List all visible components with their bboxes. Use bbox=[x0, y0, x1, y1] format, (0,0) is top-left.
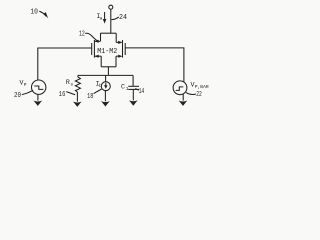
leader for 20 bbox=[22, 90, 33, 94]
svg-text:18: 18 bbox=[87, 93, 93, 101]
resistor Rs zigzag bbox=[75, 77, 80, 92]
capacitor C1 14 bbox=[128, 75, 139, 105]
drain rail bbox=[101, 32, 117, 34]
wire rail to resistor bbox=[77, 75, 79, 77]
svg-text:22: 22 bbox=[196, 91, 202, 99]
svg-text:M1-M2: M1-M2 bbox=[97, 48, 117, 56]
current source Ib 18 bbox=[101, 75, 110, 106]
svg-text:R: R bbox=[66, 79, 70, 86]
bottom rail bbox=[78, 74, 133, 76]
svg-text:10: 10 bbox=[30, 8, 38, 16]
wire resistor to ground bbox=[76, 92, 78, 102]
cap bottom plate bbox=[128, 88, 139, 90]
resistor Rs 16 bbox=[73, 75, 82, 107]
ground Rs bbox=[73, 102, 82, 107]
svg-text:b: b bbox=[99, 83, 102, 89]
transistor M1 bbox=[92, 40, 102, 58]
ground VpBAR bbox=[179, 101, 188, 106]
wire source drop bbox=[107, 67, 109, 76]
cap top plate bbox=[128, 85, 139, 87]
leader for 22 bbox=[186, 93, 196, 95]
svg-text:a: a bbox=[100, 17, 103, 22]
svg-text:C: C bbox=[121, 84, 125, 91]
M2 gate bar bbox=[124, 43, 126, 55]
wire VpBAR to ground bbox=[182, 94, 184, 101]
svg-text:16: 16 bbox=[59, 91, 66, 99]
M1 drain stub w/ arrow bbox=[94, 40, 100, 42]
leader for 16 bbox=[66, 92, 75, 95]
svg-text:1: 1 bbox=[126, 86, 129, 92]
leader for 14 bbox=[135, 89, 139, 91]
transistor M2 bbox=[116, 40, 125, 58]
output terminal 24 bbox=[109, 5, 113, 9]
M1 gate bar bbox=[91, 43, 93, 55]
ground Vp bbox=[34, 101, 43, 106]
voltage source VpBAR 22 bbox=[173, 81, 187, 106]
M2 channel bar bbox=[122, 40, 124, 58]
svg-text:s: s bbox=[70, 83, 73, 88]
leader for 12 bbox=[85, 33, 97, 41]
Ib arrow inside bbox=[105, 83, 107, 86]
svg-text:20: 20 bbox=[14, 92, 21, 100]
svg-text:P: P bbox=[24, 82, 27, 88]
current Ia arrow bbox=[104, 12, 106, 20]
Vp waveform (falling step) bbox=[34, 86, 43, 89]
wire gate M1 to Vp bbox=[38, 48, 92, 80]
svg-text:14: 14 bbox=[139, 88, 145, 96]
leader for 24 bbox=[111, 17, 118, 20]
svg-text:24: 24 bbox=[119, 14, 127, 22]
M2 source stub w/ arrow bbox=[116, 55, 121, 57]
wire drain drop M1 bbox=[100, 33, 102, 41]
svg-text:P,BAR: P,BAR bbox=[195, 84, 209, 90]
ground Ib bbox=[101, 101, 110, 106]
M1 source stub w/ arrow bbox=[94, 55, 101, 57]
wire drain drop M2 bbox=[115, 33, 117, 42]
wire terminal to drain rail bbox=[110, 9, 112, 33]
VpBAR waveform (rising step) bbox=[176, 87, 184, 91]
M2 drain stub w/ arrow bbox=[116, 41, 120, 43]
svg-text:12: 12 bbox=[79, 31, 85, 39]
wire Ib to ground bbox=[104, 91, 106, 102]
wire source node M1 bbox=[100, 56, 102, 67]
M1 channel bar bbox=[93, 40, 95, 58]
wire Vp to ground bbox=[37, 94, 39, 100]
wire rail to Ib bbox=[105, 75, 107, 81]
voltage source Vp 20 bbox=[32, 80, 46, 106]
source join rail bbox=[101, 66, 116, 68]
ground C1 bbox=[129, 100, 138, 105]
wire rail to cap bbox=[132, 75, 134, 86]
wire gate M2 to VpBAR bbox=[125, 48, 184, 82]
wire cap to ground bbox=[132, 90, 134, 101]
leader for 18 bbox=[94, 89, 102, 94]
wire source node M2 bbox=[115, 56, 117, 67]
leader arrow for 10 bbox=[39, 11, 46, 16]
